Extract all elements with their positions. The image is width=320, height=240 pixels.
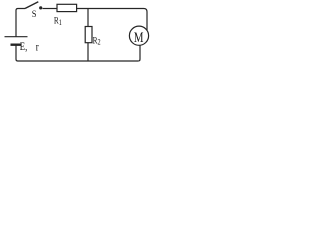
svg-text:E,: E, xyxy=(20,41,27,54)
svg-text:R2: R2 xyxy=(93,34,101,46)
svg-text:M: M xyxy=(134,29,144,45)
svg-text:S: S xyxy=(32,9,37,20)
svg-text:R1: R1 xyxy=(54,15,62,27)
svg-text:r: r xyxy=(36,42,39,54)
